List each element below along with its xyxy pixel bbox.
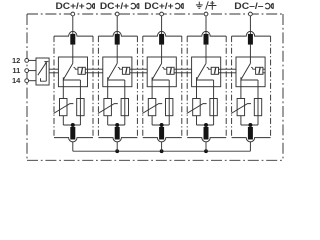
plug pin top (channel 2) xyxy=(115,34,120,45)
module boundary left (channel 5) xyxy=(231,36,233,138)
linkage lines module 3 to module 4 xyxy=(176,68,191,70)
module boundary left (channel 3) xyxy=(142,36,144,138)
linkage to SCI device with hook (channel 5) xyxy=(251,67,256,69)
varistor (channel 3) xyxy=(148,99,156,116)
fuse (channel 3) xyxy=(166,99,173,116)
fuse (channel 2) xyxy=(121,99,128,116)
disconnector box (channel 2) xyxy=(103,57,132,87)
varistor leg lower (channel 1) xyxy=(62,116,64,125)
varistor leg upper (channel 3) xyxy=(151,80,153,99)
plug pin top (channel 5) xyxy=(248,34,253,45)
top socket plate (channel 2) xyxy=(98,31,137,36)
linkage to SCI device with hook (channel 1) xyxy=(74,67,79,69)
varistor leg lower (channel 2) xyxy=(107,116,109,125)
terminal 12 wire xyxy=(27,59,36,61)
varistor diagonal (channel 2) xyxy=(98,104,118,114)
wire terminal to plug pin (channel 3) xyxy=(161,16,163,35)
disconnector box (channel 1) xyxy=(58,57,87,87)
linkage lines module 1 to module 2 xyxy=(88,68,103,70)
contact common vertical xyxy=(45,62,47,82)
contact bar (channel 1) xyxy=(63,77,80,80)
plug-connector symbol channel 1 xyxy=(87,3,92,8)
join bar (channel 5) xyxy=(241,124,258,126)
varistor leg lower (channel 4) xyxy=(196,116,198,125)
SCI device box (channel 5) xyxy=(256,67,263,74)
SCI to box edge links (channel 3) xyxy=(174,68,176,70)
wire pin to disconnector box (channel 5) xyxy=(249,45,251,64)
svg-text:14: 14 xyxy=(12,76,21,85)
wire to bus (channel 2) xyxy=(116,142,118,152)
terminal 11 circle xyxy=(25,69,29,73)
linkage lines module 2 to module 3 xyxy=(132,68,147,70)
module boundary right (channel 2) xyxy=(136,36,138,138)
fuse (channel 1) xyxy=(77,99,84,116)
wire terminal to plug pin (channel 4) xyxy=(205,16,207,35)
plug pin bottom (channel 5) xyxy=(248,127,253,140)
fuse leg (channel 1) xyxy=(79,80,81,125)
SCI to box edge links (channel 2) xyxy=(130,68,132,70)
contact 14 mark xyxy=(41,78,47,81)
linkage to SCI device with hook (channel 4) xyxy=(207,67,212,69)
module boundary left (channel 4) xyxy=(186,36,188,138)
SCI device box (channel 4) xyxy=(211,67,218,74)
varistor (channel 4) xyxy=(193,99,201,116)
wire to bus (channel 5) xyxy=(249,142,251,152)
fuse (channel 5) xyxy=(254,99,261,116)
disconnector box (channel 4) xyxy=(192,57,221,87)
blade arrowhead xyxy=(45,62,47,64)
join bar (channel 3) xyxy=(152,124,169,126)
plug pin top (channel 1) xyxy=(70,34,75,45)
switch blade (channel 2) xyxy=(108,63,118,79)
plug pin bottom (channel 1) xyxy=(70,127,75,140)
svg-text:11: 11 xyxy=(12,66,20,75)
varistor leg lower (channel 5) xyxy=(240,116,242,125)
common bus wire xyxy=(73,150,251,152)
plug pin top (channel 4) xyxy=(204,34,209,45)
top socket plate (channel 5) xyxy=(232,31,271,36)
varistor diagonal (channel 4) xyxy=(187,104,207,114)
wire pin to disconnector box (channel 2) xyxy=(116,45,118,64)
fuse leg (channel 5) xyxy=(257,80,259,125)
earth symbol (label, channel 4) xyxy=(196,2,203,9)
varistor (channel 5) xyxy=(237,99,245,116)
terminal circle (channel 3) xyxy=(160,12,164,16)
plug pin bottom (channel 3) xyxy=(159,127,164,140)
fuse (channel 4) xyxy=(210,99,217,116)
enclosure boundary left xyxy=(26,14,28,160)
top socket plate (channel 1) xyxy=(54,31,93,36)
terminal 12 circle xyxy=(25,59,29,63)
top socket plate (channel 3) xyxy=(143,31,182,36)
wire terminal to plug pin (channel 2) xyxy=(116,16,118,35)
varistor (channel 2) xyxy=(104,99,112,116)
enclosure boundary top xyxy=(27,13,283,15)
terminal circle (channel 2) xyxy=(115,12,119,16)
SCI to box edge links (channel 4) xyxy=(218,68,220,70)
wire to bus (channel 4) xyxy=(205,142,207,152)
enclosure boundary bottom xyxy=(27,159,283,161)
SCI device box (channel 3) xyxy=(167,67,174,74)
terminal 14 wire xyxy=(27,80,36,82)
bottom socket plate (channel 5) xyxy=(232,138,271,142)
plug-connector symbol channel 5 xyxy=(265,3,270,9)
module boundary right (channel 1) xyxy=(92,36,94,138)
varistor leg upper (channel 5) xyxy=(240,80,242,99)
module boundary right (channel 3) xyxy=(181,36,183,138)
remote signal contact box xyxy=(36,58,49,85)
terminal circle (channel 5) xyxy=(249,12,253,16)
module boundary right (channel 5) xyxy=(270,36,272,138)
switch blade (channel 3) xyxy=(152,63,162,79)
SCI device bar (channel 1) xyxy=(81,68,82,74)
bottom socket plate (channel 1) xyxy=(54,138,93,142)
contact bar (channel 4) xyxy=(197,77,214,80)
linkage to SCI device with hook (channel 3) xyxy=(162,67,167,69)
plug-connector symbol channel 3 xyxy=(175,3,180,9)
varistor leg upper (channel 1) xyxy=(62,80,64,99)
switch blade (channel 5) xyxy=(241,63,251,79)
varistor diagonal (channel 1) xyxy=(54,104,74,114)
module boundary right (channel 4) xyxy=(225,36,227,138)
terminal 14 circle xyxy=(25,79,29,83)
varistor leg lower (channel 3) xyxy=(151,116,153,125)
SCI device bar (channel 3) xyxy=(170,68,171,74)
slash between earth symbols xyxy=(206,1,209,9)
wire terminal to plug pin (channel 5) xyxy=(249,16,251,35)
SCI device box (channel 1) xyxy=(78,67,85,74)
wire to bus (channel 1) xyxy=(72,142,74,152)
wire to bus (channel 3) xyxy=(161,142,163,152)
join bar (channel 1) xyxy=(63,124,80,126)
bus junction node channel 2 xyxy=(115,149,119,153)
terminal circle (channel 1) xyxy=(71,12,75,16)
varistor diagonal (channel 3) xyxy=(142,104,162,114)
contact bar (channel 3) xyxy=(152,77,169,80)
wire terminal to plug pin (channel 1) xyxy=(72,16,74,35)
junction node (channel 5) xyxy=(248,123,252,127)
contact bar (channel 2) xyxy=(108,77,125,80)
join bar (channel 4) xyxy=(197,124,214,126)
wire pin to disconnector box (channel 4) xyxy=(205,45,207,64)
module boundary left (channel 1) xyxy=(53,36,55,138)
junction node (channel 4) xyxy=(204,123,208,127)
bottom socket plate (channel 2) xyxy=(98,138,137,142)
bottom socket plate (channel 4) xyxy=(187,138,226,142)
bottom socket plate (channel 3) xyxy=(143,138,182,142)
svg-text:12: 12 xyxy=(12,56,20,65)
plug pin top (channel 3) xyxy=(159,34,164,45)
contact bar (channel 5) xyxy=(241,77,258,80)
junction node (channel 2) xyxy=(115,123,119,127)
varistor leg upper (channel 2) xyxy=(107,80,109,99)
SCI device bar (channel 5) xyxy=(259,68,260,74)
disconnector box (channel 5) xyxy=(236,57,265,87)
linkage lines module 4 to module 5 xyxy=(221,68,236,70)
linkage lines signal box to module 1 xyxy=(49,68,58,70)
module boundary left (channel 2) xyxy=(97,36,99,138)
changeover contact blade xyxy=(38,63,46,75)
bus junction node channel 3 xyxy=(160,149,164,153)
varistor diagonal (channel 5) xyxy=(231,104,251,114)
switch blade (channel 1) xyxy=(63,63,73,79)
earth electrode symbol (label, channel 4) xyxy=(208,1,216,10)
plug pin bottom (channel 4) xyxy=(204,127,209,140)
switch blade (channel 4) xyxy=(197,63,207,79)
fuse leg (channel 2) xyxy=(124,80,126,125)
enclosure boundary right xyxy=(282,14,284,160)
terminal circle (channel 4) xyxy=(204,12,208,16)
top socket plate (channel 4) xyxy=(187,31,226,36)
linkage to SCI device with hook (channel 2) xyxy=(118,67,123,69)
disconnector box (channel 3) xyxy=(147,57,176,87)
junction node (channel 3) xyxy=(160,123,164,127)
terminal 11 wire xyxy=(27,70,36,72)
svg-text:DC+/+: DC+/+ xyxy=(56,1,85,11)
plug pin bottom (channel 2) xyxy=(115,127,120,140)
SCI device bar (channel 4) xyxy=(215,68,216,74)
svg-text:DC+/+: DC+/+ xyxy=(100,1,129,11)
SCI device box (channel 2) xyxy=(122,67,129,74)
wire pin to disconnector box (channel 3) xyxy=(161,45,163,64)
SCI to box edge links (channel 5) xyxy=(263,68,265,70)
plug-connector symbol channel 2 xyxy=(131,3,136,8)
varistor leg upper (channel 4) xyxy=(196,80,198,99)
svg-text:DC+/+: DC+/+ xyxy=(144,1,173,11)
bus junction node channel 4 xyxy=(204,149,208,153)
fuse leg (channel 3) xyxy=(168,80,170,125)
varistor (channel 1) xyxy=(60,99,68,116)
svg-text:DC–/–: DC–/– xyxy=(234,1,263,11)
contact 12 mark xyxy=(44,61,48,63)
SCI to box edge links (channel 1) xyxy=(85,68,87,70)
join bar (channel 2) xyxy=(108,124,125,126)
fuse leg (channel 4) xyxy=(213,80,215,125)
wire pin to disconnector box (channel 1) xyxy=(72,45,74,64)
junction node (channel 1) xyxy=(71,123,75,127)
SCI device bar (channel 2) xyxy=(126,68,127,74)
